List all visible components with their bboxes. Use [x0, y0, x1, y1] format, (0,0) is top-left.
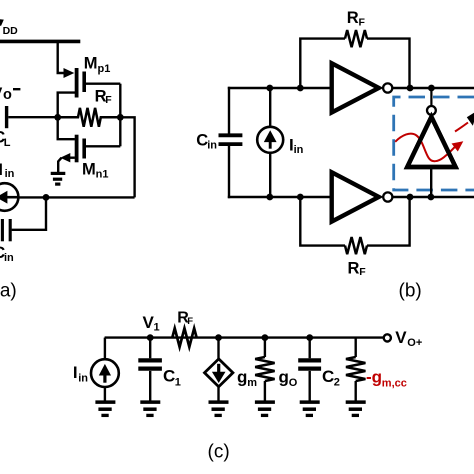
svg-text:C: C	[163, 366, 175, 385]
capacitor C2	[298, 338, 321, 401]
node bottom output 1	[407, 194, 414, 201]
wire Mn1 gate lead	[86, 145, 121, 147]
ground under Iin (c)	[95, 402, 115, 415]
label RF (c)	[177, 310, 193, 327]
wire left rail (b)	[228, 87, 230, 198]
red arrow 2	[455, 111, 474, 132]
svg-text:2: 2	[334, 377, 340, 389]
wire inner triangle bottom lead	[430, 167, 432, 197]
capacitor C1	[138, 338, 162, 401]
label Vo-	[0, 84, 20, 103]
svg-text:I: I	[0, 160, 3, 179]
controlled source gm	[205, 338, 233, 401]
wire bottom output	[393, 196, 474, 198]
svg-text:V: V	[395, 328, 407, 347]
wire bottom rail (b)	[228, 196, 332, 198]
VDD label	[0, 19, 18, 37]
svg-text:M: M	[84, 54, 98, 72]
red arrow 1	[395, 134, 463, 162]
svg-text:O: O	[289, 377, 298, 389]
svg-text:in: in	[294, 144, 304, 156]
wire top rail (b)	[228, 87, 332, 89]
node C2	[306, 334, 313, 341]
svg-text:-g: -g	[366, 368, 382, 387]
current source Iin (c)	[91, 338, 119, 401]
label V1	[143, 313, 160, 334]
node top Iin	[266, 85, 273, 92]
svg-text:I: I	[73, 363, 78, 382]
capacitor Cin (b)	[219, 135, 243, 144]
svg-text:F: F	[105, 94, 112, 106]
svg-text:p1: p1	[98, 63, 111, 75]
label VO+	[395, 328, 422, 349]
current source Iin (a)	[0, 183, 19, 211]
transistor Mp1	[58, 68, 84, 117]
ground under C1	[140, 402, 160, 415]
node bottom output 2	[428, 194, 435, 201]
svg-text:O+: O+	[407, 337, 422, 349]
svg-text:g: g	[279, 367, 289, 386]
svg-text:F: F	[359, 266, 366, 278]
svg-text:C: C	[322, 367, 334, 386]
resistor gO	[255, 338, 274, 401]
svg-text:F: F	[359, 16, 366, 28]
label C2	[322, 367, 340, 389]
svg-text:(c): (c)	[208, 442, 230, 463]
resistor RF (c)	[172, 328, 196, 347]
node top feedback	[297, 85, 304, 92]
feedback bottom wires	[300, 197, 409, 246]
label RF (a)	[95, 87, 113, 106]
label C1	[163, 366, 181, 388]
node gO	[262, 334, 269, 341]
label gm	[237, 367, 257, 389]
ground under -gm,cc	[346, 402, 366, 415]
label CL	[0, 128, 11, 150]
node left (output node)	[54, 114, 61, 121]
wire input bottom	[18, 196, 134, 198]
node bottom feedback	[297, 194, 304, 201]
transistor Mn1	[58, 135, 84, 172]
wire input node to bottom	[120, 117, 134, 197]
feedback top wires	[300, 39, 409, 88]
label RF top	[347, 9, 366, 28]
node right (input node)	[117, 114, 124, 121]
label Cin (b)	[196, 131, 217, 151]
label gO	[279, 367, 298, 389]
wire Mn1 drain lead	[58, 117, 75, 139]
svg-text:in: in	[4, 252, 14, 264]
wire main (c)	[105, 336, 384, 338]
op-amp top inverter	[332, 63, 379, 112]
resistor RF bottom (b)	[345, 237, 367, 254]
op-amp inner triangle outline overlay	[407, 117, 455, 167]
terminal VO+	[384, 334, 391, 341]
wire input node vertical	[119, 84, 121, 147]
svg-text:in: in	[207, 140, 217, 152]
node V1	[147, 334, 154, 341]
label RF bottom	[348, 259, 367, 278]
svg-text:(b): (b)	[399, 281, 422, 302]
wire Mp1 gate lead	[86, 82, 121, 84]
op-amp bottom inverter	[332, 172, 379, 221]
node Cin junction	[43, 194, 50, 201]
label -gm,cc	[366, 368, 407, 390]
op-amp inner triangle	[407, 117, 455, 167]
bubble bottom inverter	[383, 192, 392, 201]
bubble top inverter	[383, 83, 392, 92]
label Iin (b)	[289, 135, 304, 155]
node gm	[215, 334, 222, 341]
VDD rail	[0, 40, 80, 44]
wire Mp1 source lead	[58, 41, 65, 73]
svg-text:1: 1	[175, 377, 181, 389]
label Iin (a)	[0, 160, 15, 180]
capacitor Cin (a)	[2, 197, 46, 241]
svg-text:m: m	[247, 377, 257, 389]
svg-text:m,cc: m,cc	[382, 377, 407, 389]
wire to inner bubble	[430, 88, 432, 106]
label Mn1	[82, 160, 108, 180]
capacitor CL	[7, 106, 56, 128]
svg-text:R: R	[348, 259, 360, 277]
ground under gO	[255, 402, 275, 415]
ground under C2	[300, 402, 320, 415]
svg-text:o: o	[3, 87, 12, 103]
current source Iin (b)	[257, 88, 283, 197]
wire top output	[392, 87, 474, 89]
node top output 2	[428, 85, 435, 92]
resistor -gm,cc	[346, 338, 365, 401]
svg-text:M: M	[82, 160, 96, 178]
svg-text:R: R	[347, 9, 359, 27]
node bottom Iin	[266, 194, 273, 201]
svg-text:F: F	[187, 316, 193, 327]
svg-text:in: in	[5, 168, 15, 180]
svg-text:g: g	[237, 367, 247, 386]
svg-text:L: L	[4, 137, 11, 149]
svg-text:1: 1	[154, 322, 160, 334]
label Iin (c)	[73, 363, 88, 384]
node top output 1	[407, 85, 414, 92]
label Mp1	[84, 54, 111, 75]
resistor RF top (b)	[345, 30, 367, 47]
svg-text:(a): (a)	[0, 281, 17, 302]
resistor RF (a)	[58, 108, 121, 127]
bubble inner triangle	[427, 106, 436, 115]
ground under gm	[209, 402, 229, 415]
label Cin (a)	[0, 243, 14, 264]
svg-text:n1: n1	[96, 169, 109, 181]
svg-text:DD: DD	[3, 25, 19, 37]
svg-text:in: in	[78, 372, 88, 384]
ground (a)	[51, 173, 66, 184]
dashed box	[394, 97, 474, 190]
